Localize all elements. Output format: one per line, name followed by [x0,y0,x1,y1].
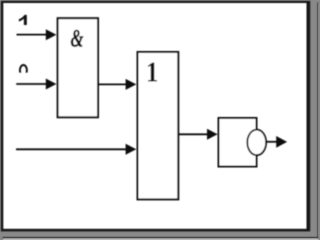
output block box [219,118,257,167]
wire input-3 to OR gate with arrowhead [16,144,136,155]
wire input-0 to AND gate with arrowhead [16,79,56,90]
AND gate box [58,18,98,117]
input node 0 (value label, bottom clipped) [20,65,27,76]
wire AND output to OR gate with arrowhead [98,79,136,90]
AND gate label & [70,24,83,52]
wire OR output to output block with arrowhead [178,129,217,140]
OR gate box [138,52,179,199]
svg-text:&: & [70,24,83,52]
wire input-1 to AND gate with arrowhead [17,29,57,40]
svg-text:1: 1 [146,55,158,87]
output wire with arrowhead [267,136,288,148]
output block indicator ellipse [247,130,266,156]
input node 1 (value label) [19,15,27,25]
OR gate label 1 [146,55,158,87]
